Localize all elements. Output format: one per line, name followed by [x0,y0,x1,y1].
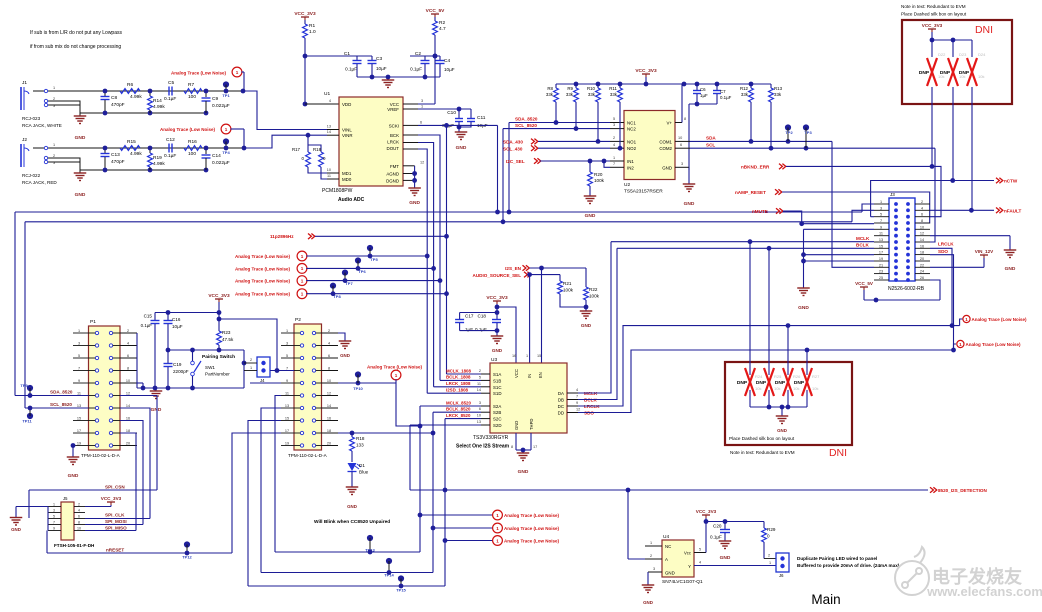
svg-text:D22: D22 [938,52,946,57]
svg-text:100k: 100k [563,288,574,293]
svg-text:S2A: S2A [493,404,501,409]
ground DNI2 [776,415,789,417]
svg-text:7: 7 [53,521,55,525]
buffer U4 body [662,540,694,577]
svg-text:RCJ-022: RCJ-022 [22,173,41,178]
svg-text:15: 15 [77,416,81,420]
svg-text:12: 12 [420,161,424,165]
analog trace note bottom3 [445,540,493,542]
wire P2 pin13 to TP14 rail [261,408,281,573]
svg-text:Note in text: Redundant to EVM: Note in text: Redundant to EVM [730,450,795,455]
svg-text:N2526-6002-RB: N2526-6002-RB [888,286,925,292]
bottom rail ch2 [80,169,206,171]
wire MCLK to J3 pin13 [611,241,874,243]
svg-text:RCA JACK, RED: RCA JACK, RED [22,180,57,185]
U1 FMT AGND DGND to ground [414,166,416,188]
vertical S2A LED rail [419,406,421,552]
svg-text:1: 1 [496,538,499,543]
svg-text:2: 2 [250,358,252,362]
svg-text:if from sub mix do not change: if from sub mix do not change processing [30,44,121,50]
svg-text:DD: DD [558,411,564,416]
svg-text:C18: C18 [478,314,487,319]
svg-text:J1: J1 [22,80,27,86]
svg-text:5: 5 [880,213,882,217]
wire DOUT vertical [418,149,427,393]
svg-text:5: 5 [613,117,615,121]
P2 pins [281,332,294,334]
U1 left pin stubs [327,129,339,131]
svg-text:Pairing Switch: Pairing Switch [202,354,235,360]
wire SDA_8520 bus [15,211,862,213]
svg-text:14: 14 [920,238,924,242]
svg-text:16: 16 [920,244,924,248]
svg-text:2: 2 [768,554,770,558]
wire SPI_MISO vertical [120,433,136,531]
capacitor C11 [470,109,472,118]
svg-text:R27: R27 [812,374,820,379]
svg-text:1: 1 [301,254,304,259]
svg-text:8: 8 [328,366,330,370]
svg-text:TP11: TP11 [22,419,32,424]
wire nCTW [871,181,994,217]
DNI box 2 outline [725,362,852,445]
svg-text:12: 12 [327,391,331,395]
svg-text:D1: D1 [359,463,365,468]
wire SPI_CSN [29,489,157,491]
test point TP13 [367,535,373,541]
wire C6 C7 ground return [689,103,717,105]
svg-text:GND: GND [665,571,675,576]
svg-text:3: 3 [613,123,615,127]
svg-text:16: 16 [327,416,331,420]
svg-text:R1: R1 [309,23,315,29]
vertical S2B rail [432,412,434,572]
svg-text:C9: C9 [212,96,218,102]
svg-text:RCJ-023: RCJ-023 [22,116,41,121]
DNI2 bottom rail [750,406,807,408]
svg-text:U2: U2 [624,182,630,188]
svg-text:8: 8 [511,445,513,449]
svg-text:4: 4 [699,561,701,565]
svg-text:33k: 33k [588,92,596,97]
svg-text:0.1µF: 0.1µF [345,67,357,72]
wire TP13 rail [275,551,420,553]
capacitor C19 [167,350,169,363]
svg-text:11: 11 [477,382,481,386]
svg-text:BCLK: BCLK [856,243,869,248]
svg-text:VCC_3V3: VCC_3V3 [696,509,717,514]
svg-text:4.7: 4.7 [439,26,446,32]
J5 pins [48,506,61,508]
test point TP9 [27,385,33,391]
svg-text:14: 14 [327,130,331,134]
svg-text:10µF: 10µF [444,67,455,72]
svg-text:4: 4 [921,206,923,210]
op-amp U1 PCM1808PW body [339,97,403,186]
svg-text:DNP: DNP [737,380,748,386]
svg-text:21: 21 [879,263,883,267]
svg-text:11: 11 [285,391,289,395]
svg-text:9: 9 [53,527,55,531]
svg-text:nRESET: nRESET [106,548,124,553]
resistor R21 [559,275,561,281]
wire TP15 rail [248,585,445,587]
svg-text:DA: DA [558,391,564,396]
test point TP11 [27,413,33,419]
header P1 body [89,326,121,450]
svg-text:4.99k: 4.99k [130,94,142,100]
svg-text:R23: R23 [222,330,231,335]
svg-text:12: 12 [576,408,580,412]
resistor R10 [596,88,601,102]
svg-text:R6: R6 [127,82,133,88]
test point TP8 [330,283,336,289]
svg-text:10k: 10k [812,386,818,391]
svg-text:R25: R25 [774,374,782,379]
capacitor C8 [104,91,106,96]
svg-text:SDA: SDA [706,136,716,141]
capacitor C17 [460,312,497,314]
svg-text:0.1µF: 0.1µF [720,95,732,100]
svg-text:5: 5 [78,354,80,358]
wire BCLK to J3 pin15 [617,247,874,249]
svg-text:S1C: S1C [493,385,502,390]
svg-text:10: 10 [920,225,924,229]
svg-text:R10: R10 [587,86,596,91]
svg-text:LRCK: LRCK [387,140,399,145]
svg-text:10k: 10k [755,386,761,391]
ground P1 pin19 [71,443,76,448]
wire R8 to SDA_8520 [555,102,557,123]
wire pairing vcc rail [155,312,219,314]
svg-text:R8: R8 [547,86,553,91]
wire P2 pin18 R18 net [338,432,433,434]
svg-text:2: 2 [650,554,652,558]
svg-text:I2C_SEL: I2C_SEL [506,159,525,164]
svg-text:100: 100 [188,94,196,100]
svg-text:1: 1 [301,278,304,283]
svg-text:R14: R14 [153,98,162,104]
decoupling ground rail [357,76,440,78]
capacitor C9 [205,91,207,97]
svg-text:GND: GND [518,469,529,475]
svg-text:R7: R7 [188,82,194,88]
svg-text:R9: R9 [567,86,573,91]
svg-text:AGND: AGND [386,172,399,177]
svg-text:GND: GND [720,555,731,561]
wire SCKI MCLK_1808 [418,124,498,126]
svg-text:BCK: BCK [390,133,399,138]
test point TP15 [398,575,404,581]
svg-text:4: 4 [329,99,331,103]
wire R9 to SCL_8520 [575,102,577,129]
pullup rail U2 [556,83,771,85]
wire P2 pin9 stub [250,382,281,384]
svg-text:SPI_MISO: SPI_MISO [105,526,127,531]
vertical S2C rail [444,419,446,586]
svg-text:LRCK_8520: LRCK_8520 [446,413,471,418]
svg-text:24: 24 [920,270,924,274]
svg-text:TP4: TP4 [222,150,230,155]
svg-text:10µF: 10µF [172,324,183,329]
svg-text:C3: C3 [376,56,382,62]
svg-text:C15: C15 [144,314,153,319]
svg-text:13: 13 [879,238,883,242]
J4 pin wires [242,361,247,366]
svg-text:12: 12 [126,391,130,395]
svg-text:VCC: VCC [514,369,519,378]
svg-text:SN74LVC1G07-Q1: SN74LVC1G07-Q1 [662,579,703,585]
svg-text:MCLK_8520: MCLK_8520 [446,400,471,405]
svg-text:C12: C12 [166,137,175,143]
svg-text:C1: C1 [344,51,350,57]
svg-text:MD1: MD1 [342,171,352,176]
svg-text:TS3V330RGYR: TS3V330RGYR [473,435,509,441]
diode D24 DNP [971,40,973,57]
svg-text:DNP: DNP [959,70,970,76]
svg-text:17: 17 [77,429,81,433]
svg-text:11: 11 [327,174,331,178]
svg-text:SPI_CLK: SPI_CLK [105,513,125,518]
diode R25 DNP [768,248,770,375]
svg-text:6: 6 [680,143,682,147]
svg-text:Place Dashed silk box on layou: Place Dashed silk box on layout [729,436,795,441]
diode R26 DNP [787,326,789,375]
svg-text:C13: C13 [111,152,120,158]
svg-text:C5: C5 [168,80,174,86]
svg-text:33k: 33k [546,92,554,97]
svg-text:J3: J3 [890,192,895,197]
svg-text:J2: J2 [22,137,27,143]
svg-text:R29: R29 [767,527,776,532]
svg-text:100k: 100k [594,178,605,183]
svg-text:10: 10 [477,414,481,418]
svg-text:R24: R24 [755,374,763,379]
svg-text:SDA_430: SDA_430 [503,140,523,145]
test point TP1 [223,81,229,87]
svg-text:SDO: SDO [938,249,948,254]
ground J3 pin12 right [930,235,1010,237]
svg-text:VIN_12V: VIN_12V [975,249,994,254]
wire SCL to J3 pin14 [930,148,935,242]
wire SDA to J3 pin21 [832,141,874,267]
svg-text:DOUT: DOUT [387,146,400,151]
svg-text:SPI_CSN: SPI_CSN [105,485,125,490]
svg-text:DB: DB [558,398,564,403]
svg-text:R19: R19 [153,155,162,161]
wire ch1 to U1 VINL [243,91,327,130]
diode D23 DNP [952,40,954,57]
rca jack J1 [20,87,22,110]
resistor R14 [149,91,151,96]
svg-text:3: 3 [78,341,80,345]
svg-text:16: 16 [126,416,130,420]
capacitor C2 [410,55,440,57]
svg-text:7: 7 [286,366,288,370]
svg-text:Analog Trace (Low Noise): Analog Trace (Low Noise) [235,292,291,297]
svg-text:14: 14 [327,404,331,408]
svg-text:1: 1 [496,513,499,518]
svg-text:10: 10 [77,527,81,531]
resistor R6 [120,89,140,94]
svg-text:2: 2 [921,200,923,204]
svg-text:6: 6 [420,121,422,125]
svg-text:Analog Trace (Low Noise): Analog Trace (Low Noise) [235,254,291,259]
svg-text:C14: C14 [212,153,221,159]
resistor R1 [304,20,306,24]
svg-text:SCL_8520: SCL_8520 [50,402,72,407]
svg-text:23: 23 [879,270,883,274]
capacitor C5 [168,87,170,96]
svg-text:DNP: DNP [756,380,767,386]
bottom rail ch1 [80,112,206,114]
svg-text:Duplicate Pairing LED wired to: Duplicate Pairing LED wired to panel [797,556,877,561]
test point TP7 [342,270,348,276]
svg-text:Select One I2S Stream: Select One I2S Stream [456,444,510,450]
svg-text:3: 3 [681,162,683,166]
U3 pin stubs [481,373,490,375]
svg-text:GND: GND [777,428,787,433]
svg-text:EN: EN [538,372,543,378]
svg-text:8: 8 [921,219,923,223]
svg-text:PCM1808PW: PCM1808PW [322,188,353,194]
svg-text:BCLK_8520: BCLK_8520 [446,407,471,412]
svg-text:R21: R21 [563,281,572,286]
net flag nFAULT [996,208,1003,214]
svg-text:3: 3 [53,509,55,513]
svg-text:GND: GND [492,348,503,353]
svg-text:13: 13 [77,404,81,408]
svg-text:THPD: THPD [529,419,534,430]
svg-text:R11: R11 [609,86,617,91]
svg-text:C10: C10 [447,110,456,116]
svg-text:GND: GND [340,353,350,358]
svg-text:470pF: 470pF [111,159,125,165]
net flag nCTW [996,178,1003,184]
svg-text:C17: C17 [465,314,474,319]
resistor R17 [306,133,311,138]
svg-text:3: 3 [653,567,655,571]
wire VCC5V to VCC pin [434,35,436,104]
svg-text:C8: C8 [111,95,117,101]
wire P2 pin10 LED net [338,382,396,384]
svg-text:4: 4 [127,341,129,345]
svg-text:GND: GND [514,421,519,430]
svg-text:0.1µF: 0.1µF [475,327,487,332]
resistor R23 [218,319,220,331]
svg-text:1µF: 1µF [465,327,473,332]
svg-text:SDA_8520: SDA_8520 [50,390,73,395]
svg-text:SCL_430: SCL_430 [503,146,523,151]
analog trace note right A [960,319,963,326]
ground U1 decoupling [382,79,395,81]
ground R21 R22 [560,294,586,307]
svg-text:IN: IN [527,374,532,378]
svg-text:Buffered to provide 20mA of dr: Buffered to provide 20mA of drive. (24mA… [797,563,900,568]
resistor R29 [763,522,765,529]
wire J4 to P2 pin7 [275,368,280,373]
wire SDA from COM1 [690,140,832,142]
svg-text:SW1: SW1 [205,365,215,370]
svg-text:10: 10 [678,136,682,140]
jack J1 shield pins [44,99,47,102]
svg-text:GND: GND [456,145,467,151]
svg-text:AUDIO_SOURCE_SEL: AUDIO_SOURCE_SEL [473,273,522,278]
svg-text:TP1: TP1 [222,93,230,98]
capacitor C12 [168,144,170,153]
capacitor C15 [154,313,156,321]
svg-text:20: 20 [327,441,331,445]
svg-text:SCKI: SCKI [389,123,399,128]
svg-text:GND: GND [347,504,357,509]
capacitor C7 [716,84,718,90]
svg-text:8: 8 [127,366,129,370]
svg-text:DNP: DNP [919,70,930,76]
ground U2 [688,167,690,184]
svg-text:5: 5 [699,548,701,552]
svg-text:FTSH-105-01-F-DH: FTSH-105-01-F-DH [54,543,95,548]
svg-text:4.99k: 4.99k [153,104,165,110]
svg-text:4: 4 [78,509,80,513]
wire P2 pin17 nRESET [232,433,281,553]
svg-text:P1: P1 [90,319,96,325]
svg-text:R17: R17 [292,147,301,152]
svg-text:NO1: NO1 [627,139,637,144]
svg-text:nCTW: nCTW [1004,179,1018,184]
svg-text:S1A: S1A [493,372,501,377]
svg-text:GND: GND [585,213,596,219]
svg-text:0.1µF: 0.1µF [164,96,176,102]
wire U4 input A [628,558,645,560]
diode R24 DNP [749,242,751,375]
DNI box 1 outline [902,20,1012,104]
capacitor C1 [305,55,372,57]
ground J3 pins [797,287,810,289]
svg-text:2: 2 [53,97,55,101]
mux U3 TS3V330RGYR body [490,363,567,433]
svg-text:IN2: IN2 [627,165,634,170]
svg-text:9: 9 [576,401,578,405]
connector J6 body [764,558,776,560]
svg-text:1: 1 [421,105,423,109]
led D1 [348,463,357,471]
connector J4 body [257,357,270,377]
svg-text:10: 10 [327,168,331,172]
wire SCL from COM2 [690,147,935,149]
resistor R22 [585,268,587,287]
wire ch1 signal [33,90,243,92]
svg-text:1: 1 [959,342,962,347]
svg-text:Analog Trace (Low Noise): Analog Trace (Low Noise) [367,365,423,370]
svg-text:VINL: VINL [342,128,352,133]
wire VCC3V3 to VDD [304,38,306,104]
svg-text:0.1µF: 0.1µF [164,153,176,159]
wire LRCLK to J3 pin16 [930,248,952,325]
wire SPI_CLK vertical [120,408,150,519]
jack J2 shield pins [44,156,47,159]
svg-text:1: 1 [250,366,252,370]
analog trace note right B [954,344,957,350]
resistor R13 [769,88,774,102]
svg-text:Analog Trace (Low Noise): Analog Trace (Low Noise) [504,526,560,531]
svg-text:GND: GND [581,323,592,328]
svg-text:BCLK_1808: BCLK_1808 [446,375,471,380]
svg-text:GND: GND [798,305,809,311]
U3 ground pins [515,433,517,450]
svg-text:COM2: COM2 [659,146,672,151]
svg-text:13: 13 [477,420,481,424]
svg-text:14: 14 [126,404,130,408]
